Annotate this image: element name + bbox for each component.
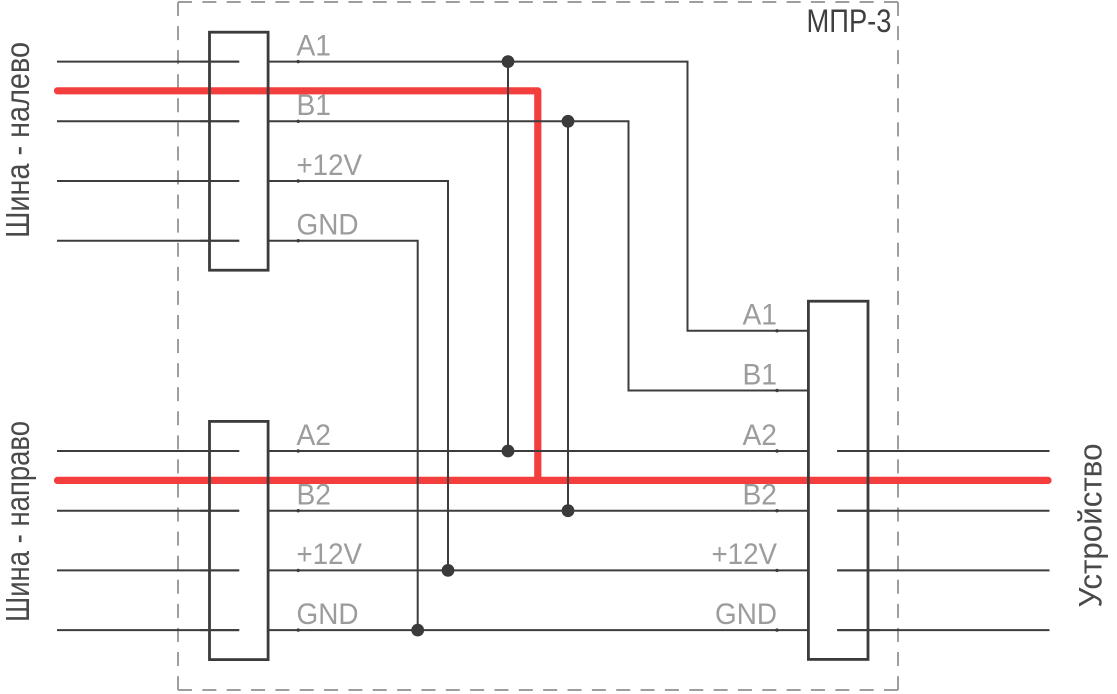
svg-text:A2: A2 (743, 419, 778, 452)
svg-text:МПР-3: МПР-3 (807, 3, 892, 39)
svg-text:B1: B1 (743, 358, 778, 391)
svg-text:B1: B1 (297, 89, 332, 122)
svg-text:Шина - налево: Шина - налево (0, 42, 36, 238)
svg-text:GND: GND (297, 598, 359, 631)
svg-text:B2: B2 (297, 479, 332, 512)
svg-text:+12V: +12V (712, 538, 778, 571)
svg-text:A1: A1 (297, 29, 332, 62)
svg-text:Шина - направо: Шина - направо (0, 421, 36, 622)
svg-text:GND: GND (297, 209, 359, 242)
svg-text:A2: A2 (297, 419, 332, 452)
svg-text:A1: A1 (743, 299, 778, 332)
svg-text:GND: GND (715, 598, 777, 631)
svg-text:Устройство: Устройство (1073, 444, 1109, 608)
svg-text:B2: B2 (743, 479, 778, 512)
svg-text:+12V: +12V (297, 149, 363, 182)
svg-text:+12V: +12V (297, 538, 363, 571)
